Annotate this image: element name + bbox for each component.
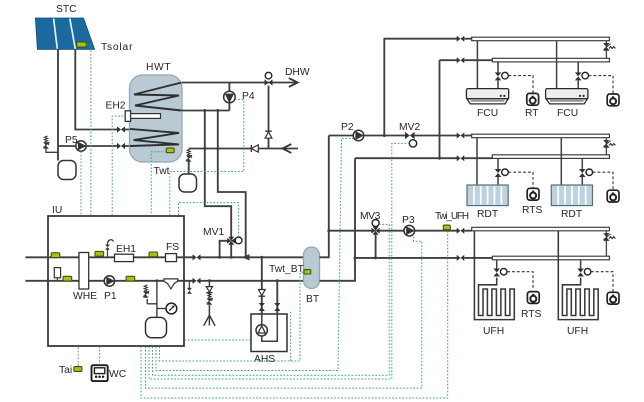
svg-text:P2: P2: [341, 122, 354, 133]
wire P4 riser: [228, 83, 230, 111]
fan coil unit FCU1: [466, 89, 508, 99]
wire DHW drop: [268, 86, 270, 149]
wire vessel stub: [188, 162, 190, 174]
control wire MV2: [149, 143, 409, 379]
wire RDT2 valve drop: [581, 158, 583, 169]
motorized valve FCU1: [495, 72, 502, 80]
wire AHS supply branch: [261, 257, 263, 314]
AHS internal piping: [262, 314, 278, 341]
pump P4: [224, 91, 236, 103]
buffer tank BT: [304, 247, 320, 289]
wire P3 to UFH valve: [415, 230, 457, 232]
wire safety valve stub: [46, 149, 58, 153]
valve IU supply outlet: [193, 254, 201, 260]
electric heater EH2: [125, 111, 130, 122]
svg-text:FS: FS: [166, 242, 179, 253]
wire relief branch: [147, 303, 157, 305]
svg-text:RTS: RTS: [521, 309, 542, 320]
wire MV1 left port: [220, 241, 228, 257]
UFH supply rail: [472, 227, 610, 231]
control wire P4: [170, 100, 244, 216]
wire return main to BT: [200, 280, 303, 282]
radiator RDT2: [551, 185, 592, 206]
valve UFH supply: [457, 228, 465, 234]
dashed link valve-RTS3: [507, 272, 533, 290]
Tsolar sensor: [77, 42, 87, 47]
RDT supply rail: [472, 134, 610, 138]
thermostat RTS4: [607, 292, 619, 304]
wire FCU supply riser: [384, 39, 457, 136]
flow switch FS: [166, 254, 177, 262]
svg-text:UFH: UFH: [483, 326, 504, 337]
motorized valve RDT2: [579, 169, 586, 177]
air vent IU: [107, 250, 109, 257]
HWT bottom coil: [130, 129, 179, 146]
wire RDT1 supply drop: [476, 138, 478, 185]
safety valve RDT rail end: [605, 138, 607, 155]
junction dot MV3 line tee: [327, 229, 330, 232]
Twt sensor: [166, 148, 174, 153]
sensor IU supply 2: [95, 251, 104, 256]
safety valve solar loop: [43, 142, 49, 149]
dashed link valve-RTS1: [508, 172, 533, 188]
thermostat RT1: [527, 93, 539, 105]
wire supply main to BT: [200, 256, 303, 258]
svg-text:BT: BT: [306, 294, 320, 305]
svg-text:MV2: MV2: [399, 122, 420, 133]
wire P2 line: [329, 135, 353, 137]
wire P2 to MV2: [364, 135, 405, 137]
valve AHS supply: [259, 303, 265, 311]
wire RDT supply into rail: [464, 135, 471, 137]
wire IU vessel stub: [156, 281, 158, 318]
dashed link valve-RT2: [589, 76, 613, 94]
wire MV3 line: [329, 230, 372, 232]
control wire Twt_BT: [160, 273, 305, 361]
wire drain tail: [208, 305, 210, 326]
wire DHW supply line: [182, 82, 296, 84]
junction dot RDT return tee: [438, 157, 441, 160]
wire MV2 to RDT valve: [415, 135, 457, 137]
svg-text:EH1: EH1: [116, 244, 136, 255]
svg-text:WC: WC: [109, 369, 127, 380]
control wire Tai: [77, 347, 79, 367]
AHS pump: [256, 325, 267, 336]
expansion vessel DHW: [179, 174, 197, 192]
relief valve drain branch: [207, 298, 213, 305]
wire FCU1 supply drop: [476, 41, 478, 89]
motorized valve FCU2: [575, 72, 582, 80]
flow arrow supply main: [243, 254, 250, 261]
hot water tank HWT: [130, 75, 183, 162]
Tai sensor: [74, 367, 82, 372]
junction dots supply main: [218, 256, 221, 259]
control wire P3: [146, 236, 422, 388]
svg-text:IU: IU: [52, 205, 62, 216]
motorized valve UFH1: [493, 269, 500, 277]
svg-text:Tsolar: Tsolar: [101, 42, 133, 53]
svg-text:STC: STC: [56, 4, 77, 15]
control wire Twt: [151, 152, 166, 216]
valve MV2: [405, 132, 415, 139]
underfloor coil UFH2: [558, 231, 598, 320]
valve UFH return: [457, 255, 465, 261]
fan coil unit FCU2: [546, 89, 588, 99]
wire FCU2 supply drop: [556, 41, 558, 89]
relief valve DHW: [186, 155, 192, 162]
drain branch: [208, 279, 211, 282]
junction dots coil line: [203, 109, 206, 112]
control wire WC: [99, 347, 101, 366]
valve FCU return: [457, 57, 465, 63]
valve RDT supply: [457, 133, 465, 139]
svg-text:FCU: FCU: [477, 108, 498, 119]
svg-text:RTS: RTS: [522, 205, 543, 216]
wire P5 discharge: [86, 145, 117, 147]
check valve drain branch: [206, 287, 212, 292]
electric heater EH1: [115, 254, 134, 261]
drain funnel IU: [164, 279, 178, 289]
pump P5: [76, 141, 86, 151]
pump P3: [404, 225, 415, 236]
control wire Tsolar: [87, 45, 91, 216]
expansion vessel IU: [146, 317, 167, 337]
svg-text:P5: P5: [65, 135, 78, 146]
wire UFH2 valve drop: [580, 260, 582, 269]
wire UFH1 valve drop: [496, 260, 498, 269]
wire coil bottom line: [182, 110, 229, 112]
sensor IU supply 1: [51, 253, 60, 258]
control wire P2: [156, 139, 353, 371]
drain tripod: [204, 315, 210, 326]
drain cock on return main: [188, 281, 190, 289]
heat exchanger WHE: [79, 253, 89, 290]
svg-text:MV1: MV1: [203, 227, 224, 238]
wire FCU1 valve drop: [497, 62, 499, 73]
dashed link valve-RTS4: [591, 272, 613, 292]
safety valve FCU rail end: [605, 41, 607, 59]
wire AHS return branch: [276, 281, 278, 314]
wire P5 suction: [58, 145, 76, 147]
radiator RDT1: [467, 185, 508, 206]
wire RDT return line: [355, 157, 457, 159]
wire MV3 to P3: [380, 230, 404, 232]
control wire Twi_UFH: [141, 230, 448, 398]
junction dots cold line: [203, 147, 206, 150]
cold water arrow: [283, 144, 292, 153]
dashed link valve-RT1: [508, 76, 533, 94]
wire gauge branch: [157, 308, 166, 310]
indoor unit IU box: [48, 216, 184, 346]
wire IU supply pipe: [25, 256, 192, 258]
wire solar supply pipe: [75, 49, 117, 130]
control wire P5: [80, 151, 82, 215]
svg-text:RDT: RDT: [477, 209, 499, 220]
wired controller WC: [92, 365, 108, 381]
svg-text:WHE: WHE: [73, 291, 97, 302]
wire FCU return drop: [439, 60, 441, 158]
svg-text:MV3: MV3: [360, 211, 381, 222]
motorized valve RDT1: [495, 169, 502, 177]
safety valve UFH rail end: [605, 231, 607, 256]
underfloor coil UFH1: [474, 231, 514, 320]
wire UFH return line: [355, 257, 457, 259]
svg-text:HWT: HWT: [146, 62, 171, 73]
wire RDT1 valve drop: [497, 158, 499, 169]
valve FCU supply: [457, 36, 465, 42]
valve AHS return: [274, 303, 280, 311]
svg-text:RT: RT: [525, 108, 539, 119]
valve on solar supply: [117, 126, 125, 132]
control wire AHS right: [290, 311, 292, 361]
HWT top coil: [134, 83, 182, 111]
svg-text:P3: P3: [402, 215, 415, 226]
svg-text:AHS: AHS: [254, 354, 275, 365]
svg-text:UFH: UFH: [567, 326, 588, 337]
sensor IU return 1: [63, 276, 72, 281]
thermostat RTS2: [607, 190, 619, 202]
sensor IU supply 3: [149, 252, 158, 257]
svg-text:DHW: DHW: [285, 67, 310, 78]
check valve cold line: [251, 145, 258, 152]
solar collector STC: [35, 18, 94, 49]
valve IU return outlet: [193, 278, 201, 284]
pressure gauge IU: [166, 303, 177, 314]
wire cold water line: [189, 148, 298, 150]
thermostat RTS3: [527, 292, 539, 304]
wire BT return to riser: [320, 158, 356, 281]
DHW 3-way valve: [265, 79, 273, 85]
wire BT to riser: [320, 136, 329, 258]
pump P1: [104, 276, 114, 286]
check valve AHS: [258, 290, 265, 296]
wire RDT2 supply drop: [560, 138, 562, 185]
wire tank-to-main pipe: [218, 111, 246, 257]
svg-text:FCU: FCU: [557, 108, 578, 119]
sensor IU return 2: [126, 276, 135, 281]
mixing valve MV3: [372, 228, 376, 234]
wire FCU return line: [440, 59, 458, 61]
wire tank-to-MV1 pipe: [205, 111, 231, 238]
svg-text:Twt: Twt: [154, 166, 170, 177]
svg-text:Twi_UFH: Twi_UFH: [435, 211, 469, 222]
thermostat RTS1: [527, 188, 539, 200]
svg-text:Twt_BT: Twt_BT: [269, 264, 305, 275]
dashed link valve-RTS2: [593, 172, 613, 190]
svg-text:Tai: Tai: [59, 365, 72, 376]
valve on solar return: [117, 143, 125, 149]
junction dot FCU riser: [383, 134, 386, 137]
Twt_BT sensor: [304, 270, 311, 274]
svg-text:P4: P4: [242, 91, 255, 102]
motorized valve UFH2: [577, 269, 584, 277]
DHW arrow: [289, 78, 298, 87]
junction dot vessel stub: [155, 279, 158, 282]
wire MV3 bottom stub: [375, 235, 377, 258]
valve RDT return: [457, 155, 465, 161]
wire solar return pipe: [57, 49, 59, 161]
mixing valve MV1: [227, 238, 231, 244]
wire FCU2 valve drop: [577, 62, 579, 73]
control wire AHS: [185, 339, 252, 341]
control wire MV3: [153, 224, 390, 375]
expansion vessel solar: [58, 161, 76, 180]
AHS box: [251, 314, 287, 352]
svg-text:P1: P1: [104, 291, 117, 302]
FCU supply rail: [472, 37, 610, 41]
control wire EH2: [112, 116, 125, 215]
Twi_UFH sensor: [443, 225, 450, 230]
svg-text:RDT: RDT: [561, 209, 583, 220]
wire MV1 bottom port: [230, 245, 232, 258]
valve on DHW drop: [265, 132, 272, 138]
pump P2: [353, 130, 364, 141]
control wire MV1: [179, 203, 239, 237]
wire IU return pipe: [25, 280, 192, 282]
relief valve IU: [143, 291, 149, 298]
filter on IU return: [54, 268, 60, 278]
thermostat RT2: [607, 94, 619, 106]
svg-text:EH2: EH2: [106, 101, 126, 112]
